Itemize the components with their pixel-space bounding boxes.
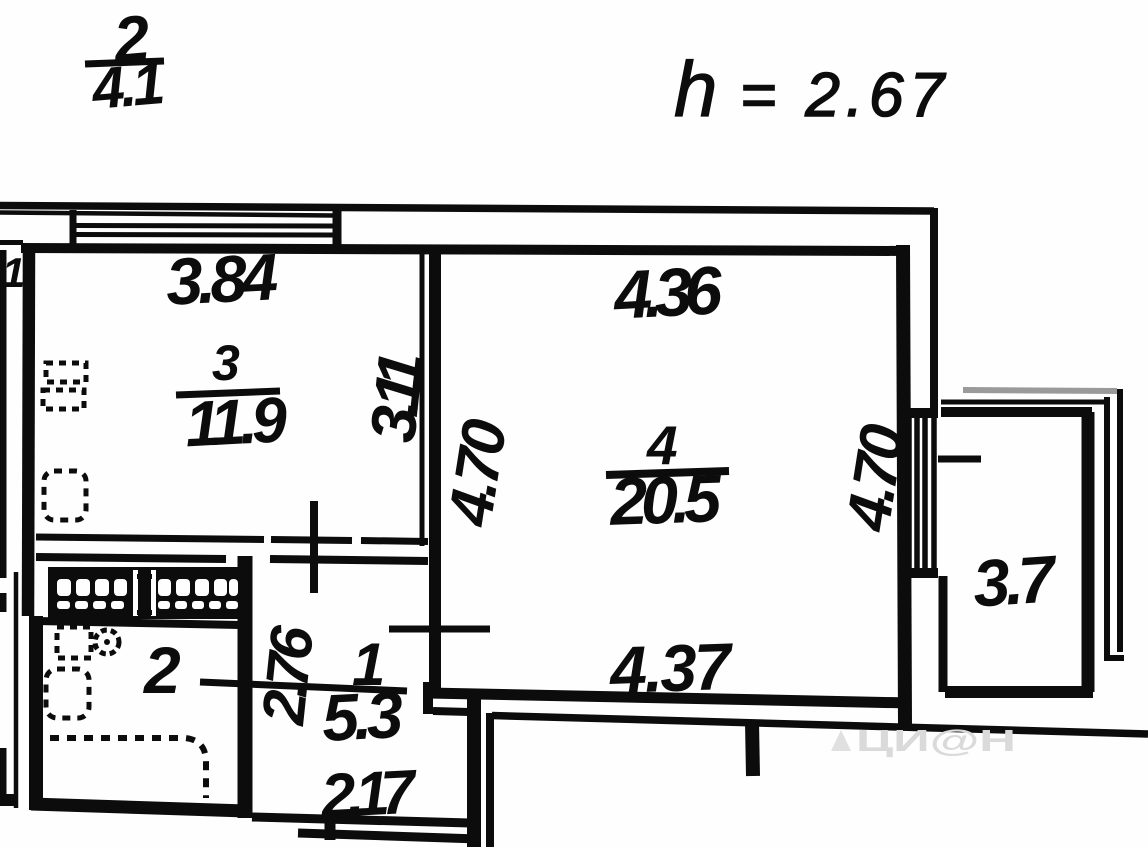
svg-text:3: 3 (212, 335, 240, 391)
svg-text:h: h (674, 45, 717, 133)
svg-text:3.11: 3.11 (356, 348, 437, 445)
svg-text:3.84: 3.84 (164, 239, 280, 319)
svg-text:ЦИ@Н: ЦИ@Н (856, 723, 1016, 758)
svg-text:5.3: 5.3 (320, 677, 405, 755)
svg-text:3.7: 3.7 (971, 541, 1061, 621)
svg-text:4.37: 4.37 (607, 629, 736, 707)
svg-text:2.76: 2.76 (249, 622, 326, 728)
svg-text:4.36: 4.36 (610, 252, 725, 334)
svg-text:2: 2 (142, 633, 181, 707)
svg-text:1: 1 (2, 249, 25, 296)
svg-text:2.17: 2.17 (318, 757, 419, 831)
